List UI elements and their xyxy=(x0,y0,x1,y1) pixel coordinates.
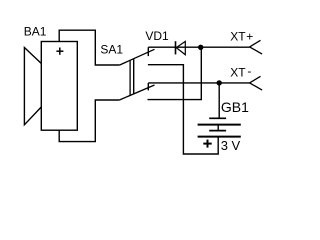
wire lower-pole lower contact to XT+ junction xyxy=(148,47,202,99)
loudspeaker BA1 xyxy=(24,42,77,131)
junction node on XT- line xyxy=(217,80,222,85)
wire lower contact to XT- xyxy=(148,82,249,84)
svg-text:GB1: GB1 xyxy=(221,99,249,115)
svg-text:XT: XT xyxy=(230,30,246,44)
junction node on XT+ line xyxy=(198,45,203,50)
battery GB1 xyxy=(198,118,241,147)
svg-text:BA1: BA1 xyxy=(24,24,47,38)
terminal XT+ xyxy=(250,40,263,54)
svg-text:SA1: SA1 xyxy=(100,42,123,56)
diode VD1 xyxy=(176,41,186,55)
svg-text:-: - xyxy=(247,64,251,78)
svg-text:VD1: VD1 xyxy=(145,29,169,43)
switch SA1 xyxy=(119,47,154,100)
wire XT- junction to battery GB1 top xyxy=(218,83,220,118)
svg-text:3 V: 3 V xyxy=(221,138,241,153)
svg-text:XT: XT xyxy=(230,66,246,80)
svg-text:+: + xyxy=(246,30,253,44)
wire battery GB1 bottom to upper-pole lower contact xyxy=(148,65,218,154)
terminal XT- xyxy=(250,76,263,90)
wire BA1 top to SA1 upper pole xyxy=(59,30,119,65)
wire upper contact through VD1 to XT+ xyxy=(148,46,249,48)
wire BA1 bottom to SA1 lower pole xyxy=(59,100,119,142)
